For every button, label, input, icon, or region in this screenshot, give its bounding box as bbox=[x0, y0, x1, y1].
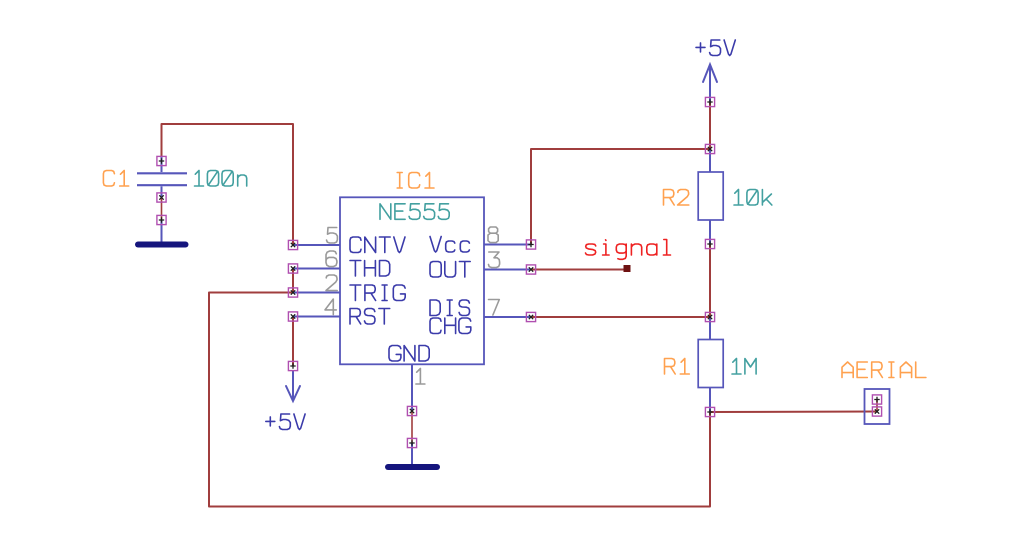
wire C1 top to IC pin 5 (CNTV) bbox=[162, 124, 294, 245]
junction pin 5 bbox=[288, 240, 297, 249]
op-amp-style IC body IC1 bbox=[340, 197, 484, 364]
value 10k bbox=[734, 190, 772, 206]
label +5V (top) bbox=[696, 40, 735, 56]
pin 5 CNTV bbox=[293, 228, 405, 253]
pin 4 RST bbox=[293, 299, 390, 324]
wire AERIAL pin link bbox=[876, 400, 878, 412]
junction pin 2 bbox=[288, 288, 297, 297]
capacitor C1 bbox=[137, 156, 187, 198]
pin marker R1 bottom bbox=[705, 407, 714, 416]
wire R1 bottom to AERIAL bbox=[710, 411, 877, 414]
wire OUT (pin 3) to signal node bbox=[531, 269, 628, 271]
net label signal bbox=[586, 240, 671, 260]
label IC1 bbox=[397, 173, 434, 189]
label R2 bbox=[664, 190, 689, 206]
wire Vcc (pin 8) up and right to +5V rail bbox=[531, 149, 710, 245]
value NE555 bbox=[380, 204, 449, 220]
wire R2 bottom to DIS/CHG junction bbox=[709, 244, 711, 317]
wire +5V arrow pin down to junction bbox=[709, 102, 711, 149]
wire RST to +5V arrow pin bbox=[292, 317, 294, 367]
pin marker AERIAL top bbox=[872, 395, 881, 404]
pin 7 DIS CHG bbox=[430, 300, 531, 334]
junction AERIAL bbox=[872, 407, 881, 416]
label +5V (at RST) bbox=[266, 414, 305, 430]
ground below IC1 bbox=[388, 464, 437, 470]
label R1 bbox=[665, 359, 690, 375]
pin marker IC ground bbox=[407, 438, 416, 447]
value 1M bbox=[732, 359, 756, 375]
pin 1 GND bbox=[389, 346, 429, 412]
label AERIAL bbox=[842, 362, 926, 378]
label C1 bbox=[103, 171, 128, 187]
junction C1 bottom bbox=[157, 193, 166, 202]
wire IC GND pin to ground pin bbox=[411, 411, 413, 443]
pin marker R2 bottom bbox=[705, 239, 714, 248]
pin marker C1 ground bbox=[157, 215, 166, 224]
junction pin 3 bbox=[526, 265, 535, 274]
pin 8 Vcc bbox=[430, 227, 531, 252]
pin 6 THD bbox=[293, 251, 390, 276]
pin marker +5V at RST bbox=[288, 361, 297, 370]
junction IC GND bbox=[407, 406, 416, 415]
junction R1 top / pin 7 bbox=[705, 312, 714, 321]
junction pin 6 bbox=[288, 264, 297, 273]
pin marker C1 top bbox=[157, 156, 166, 165]
connector AERIAL bbox=[865, 389, 890, 424]
junction pin 4 bbox=[288, 312, 297, 321]
value 100n bbox=[195, 171, 247, 187]
wire THD to TRIG bbox=[292, 269, 294, 293]
wire C1 lower pin to ground pin bbox=[161, 198, 163, 221]
pin 3 OUT bbox=[430, 252, 531, 277]
wire TRIG left-down-bottom to R1 bottom bbox=[209, 293, 710, 507]
ground below C1 bbox=[138, 242, 186, 248]
node signal (square) bbox=[624, 265, 631, 272]
junction +5V rail / R2 top bbox=[705, 144, 714, 153]
resistor R1 bbox=[698, 317, 723, 412]
wire GND ground stub bbox=[411, 443, 413, 464]
resistor R2 bbox=[698, 149, 723, 244]
wire C1 ground stub bbox=[161, 220, 163, 242]
power +5V (at RST, arrow down) bbox=[286, 371, 300, 401]
junction pin 7 bbox=[526, 312, 535, 321]
pin 2 TRIG bbox=[293, 275, 405, 301]
pin marker pin 8 bbox=[526, 240, 535, 249]
power +5V (top, arrow up) bbox=[703, 65, 717, 103]
wire DIS/CHG (pin 7) to R1 top junction bbox=[531, 316, 710, 318]
pin marker +5V top bbox=[705, 97, 714, 106]
